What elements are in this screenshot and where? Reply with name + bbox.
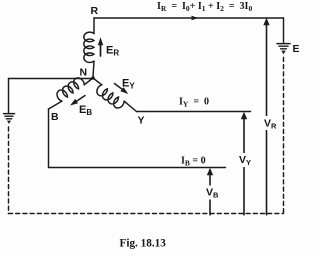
wire coil R to node N xyxy=(93,61,94,77)
ground E (right earth symbol) xyxy=(277,44,290,55)
wire I_Y horizontal xyxy=(137,111,251,113)
arrow V_Y xyxy=(241,112,247,215)
wire node N to coil Y xyxy=(93,78,102,85)
svg-text:IB = 0: IB = 0 xyxy=(181,156,206,168)
wire coil Y to terminal Y corner xyxy=(124,101,136,111)
wire B vertical down xyxy=(48,109,50,168)
coil R (phase R winding) xyxy=(84,32,94,62)
svg-text:E: E xyxy=(293,43,300,55)
arrow V_B xyxy=(207,168,213,215)
wire left vertical to ground xyxy=(8,79,10,113)
svg-text:Fig. 18.13: Fig. 18.13 xyxy=(120,237,167,249)
wire I_B horizontal xyxy=(49,167,226,169)
svg-text:Y: Y xyxy=(138,115,145,127)
coil B (phase B winding) xyxy=(55,76,85,102)
node N (star point) xyxy=(91,76,95,80)
current direction arrowhead on R line xyxy=(192,16,199,21)
svg-text:R: R xyxy=(91,5,99,17)
wire node N to left xyxy=(9,78,94,80)
dashed line left (from ground to bottom) xyxy=(8,127,10,214)
coil Y (phase Y winding) xyxy=(95,84,125,110)
wire right drop to earth E xyxy=(283,18,285,43)
arrow E_Y xyxy=(115,84,129,95)
svg-text:EB: EB xyxy=(79,104,92,117)
svg-text:B: B xyxy=(51,111,59,123)
arrow V_R xyxy=(263,18,269,215)
wire R terminal vertical xyxy=(93,18,95,34)
dashed line bottom xyxy=(9,213,284,215)
wire node N to coil B xyxy=(84,78,93,85)
arrow E_B xyxy=(70,96,85,106)
label V_B xyxy=(205,186,219,200)
dashed line right (from earth E to bottom) xyxy=(283,58,285,214)
svg-text:IR = I0+ I1 + I2 = 3I0: IR = I0+ I1 + I2 = 3I0 xyxy=(157,1,252,13)
label V_Y xyxy=(238,153,252,167)
wire coil B to corner B xyxy=(49,101,62,109)
arrow E_R xyxy=(98,37,103,56)
label V_R xyxy=(263,116,277,130)
svg-text:ER: ER xyxy=(106,45,119,58)
svg-text:EY: EY xyxy=(122,78,135,91)
svg-text:N: N xyxy=(80,67,88,79)
wire top horizontal R line xyxy=(94,17,284,19)
ground left (earth symbol) xyxy=(4,114,15,124)
svg-text:IY = 0: IY = 0 xyxy=(179,97,209,109)
